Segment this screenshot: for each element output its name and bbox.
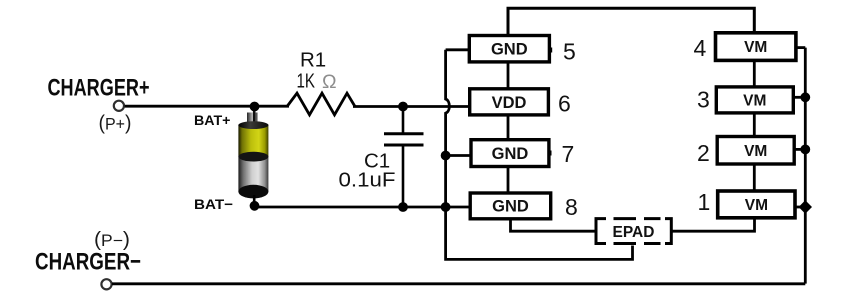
svg-text:3: 3 bbox=[697, 86, 710, 112]
wire: VM3 right stub bbox=[793, 96, 805, 99]
wire: GND7 to GND8 bbox=[507, 166, 510, 194]
pin box EPAD (dashed) bbox=[596, 219, 671, 244]
wire: GND pin 5 left lead bbox=[446, 48, 470, 51]
svg-text:VM: VM bbox=[743, 93, 766, 110]
wire: VDD to GND7 bbox=[507, 115, 510, 141]
svg-text:GND: GND bbox=[491, 41, 528, 59]
node: C1 bottom junction bbox=[398, 202, 408, 212]
node: VM2 bus junction bbox=[800, 145, 810, 155]
node: battery positive junction bbox=[250, 102, 260, 112]
node: VM3 bus junction bbox=[800, 92, 810, 102]
wire: EPAD right to VM1 bottom bbox=[673, 218, 755, 232]
svg-text:7: 7 bbox=[562, 141, 575, 167]
wire: GND pin 7 left lead bbox=[446, 154, 472, 157]
svg-text:VDD: VDD bbox=[492, 94, 527, 112]
pin box VM 4 bbox=[716, 33, 796, 61]
wire: R1 right lead to VDD pin bbox=[353, 105, 470, 108]
wire: P- terminal to right bus (bottom run) bbox=[112, 282, 805, 285]
node: bus to GND7 junction bbox=[441, 151, 451, 161]
svg-text:EPAD: EPAD bbox=[613, 224, 655, 241]
battery BT1 bbox=[238, 111, 268, 198]
svg-text:BAT+: BAT+ bbox=[194, 112, 231, 128]
wire: capacitor C1 top lead bbox=[402, 107, 405, 134]
svg-text:Ω: Ω bbox=[322, 71, 337, 93]
pin box VM 1 bbox=[718, 191, 795, 218]
svg-text:GND: GND bbox=[492, 145, 529, 163]
wire: P+ terminal to R1 left lead bbox=[125, 105, 289, 108]
node: battery negative junction bbox=[250, 201, 260, 211]
pin box VM 2 bbox=[717, 137, 794, 165]
pin box GND 8 bbox=[470, 193, 551, 219]
svg-text:GND: GND bbox=[492, 198, 529, 216]
svg-text:CHARGER+: CHARGER+ bbox=[48, 75, 150, 102]
wire: GND bus vertical with hop over VDD wire bbox=[446, 50, 633, 260]
wire: VM2 right stub bbox=[794, 148, 805, 151]
svg-text:2: 2 bbox=[697, 140, 710, 166]
terminal P- bbox=[101, 279, 111, 289]
node: C1 top junction bbox=[398, 102, 408, 112]
svg-text:VM: VM bbox=[744, 143, 767, 160]
svg-text:VM: VM bbox=[744, 39, 767, 56]
terminal P+ bbox=[114, 101, 124, 111]
pin box VDD 6 bbox=[470, 89, 549, 115]
resistor R1 zigzag bbox=[287, 93, 355, 115]
wire: BAT- to GND pin 8 bbox=[255, 206, 471, 209]
wire: VM1 right stub bbox=[795, 206, 806, 209]
node: VM1 bus junction (diamond) bbox=[799, 200, 812, 213]
wire: GND8 bottom to EPAD left bbox=[511, 218, 596, 231]
svg-text:8: 8 bbox=[565, 194, 578, 220]
pin box GND 5 bbox=[469, 36, 552, 62]
svg-text:1: 1 bbox=[698, 189, 711, 215]
pin box GND 7 bbox=[471, 140, 552, 167]
svg-text:R1: R1 bbox=[300, 48, 326, 71]
svg-text:BAT−: BAT− bbox=[194, 196, 233, 212]
wire: junction down to battery bbox=[253, 107, 256, 122]
node: bus to BAT- wire junction bbox=[441, 202, 451, 212]
svg-text:1K: 1K bbox=[297, 70, 316, 93]
svg-text:4: 4 bbox=[694, 35, 707, 61]
wire: battery negative lead bbox=[253, 195, 256, 207]
wire: capacitor C1 bottom lead bbox=[402, 144, 405, 207]
svg-text:0.1uF: 0.1uF bbox=[339, 169, 396, 192]
svg-text:(P+): (P+) bbox=[99, 113, 132, 135]
pin box VM 3 bbox=[716, 87, 793, 113]
wire: GND5 top to top run to VM4 bbox=[508, 8, 754, 36]
wire: right VM bus bbox=[804, 48, 807, 284]
svg-text:5: 5 bbox=[563, 39, 576, 65]
svg-text:VM: VM bbox=[745, 197, 768, 214]
wire: VM4 right stub bbox=[796, 46, 806, 49]
wire: GND5 to VDD bbox=[507, 62, 510, 90]
svg-text:CHARGER−: CHARGER− bbox=[35, 248, 141, 275]
wire: VM3 to VM2 bbox=[753, 113, 756, 138]
wire: VM2 to VM1 bbox=[753, 164, 756, 192]
svg-text:6: 6 bbox=[558, 91, 571, 117]
capacitor C1 plates bbox=[384, 134, 424, 145]
wire: VM4 to VM3 bbox=[753, 60, 756, 87]
